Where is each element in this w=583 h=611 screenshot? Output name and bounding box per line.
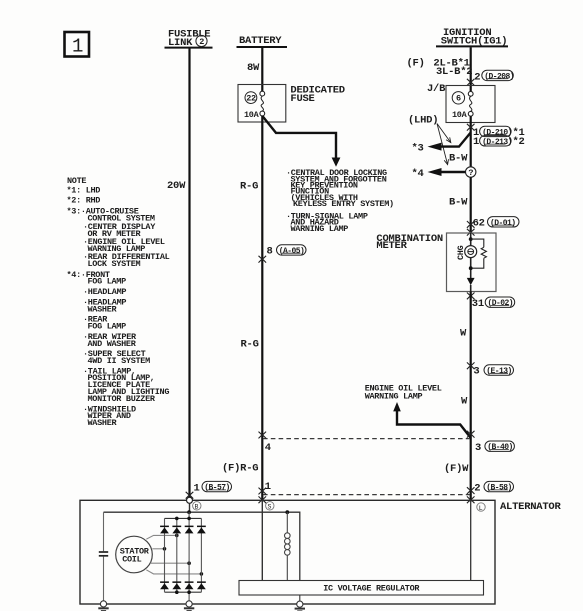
meter internal wire bottom: [470, 285, 472, 292]
dashed line row B-58: [263, 494, 470, 496]
engine oil level warning lamp note: [365, 383, 471, 438]
svg-text:S: S: [268, 504, 272, 511]
field coil branch: [285, 512, 291, 580]
central door locking note text: [286, 168, 394, 234]
labels (F)2L-B*1 3L-B*2: [407, 58, 473, 78]
wire fusible link to alternator: [188, 49, 190, 498]
svg-text:L: L: [479, 505, 483, 512]
dedicated fuse box: [238, 85, 286, 123]
connector D-02: [467, 293, 515, 310]
svg-text:(D-208): (D-208): [484, 72, 514, 81]
svg-text:FOG LAMP: FOG LAMP: [88, 322, 127, 332]
connector D-208: [467, 70, 514, 85]
connector D-01: [467, 217, 519, 236]
svg-text:8: 8: [267, 245, 273, 257]
svg-text:(F)W: (F)W: [444, 463, 469, 475]
svg-text:3: 3: [473, 366, 479, 378]
svg-text:1: 1: [194, 483, 200, 495]
fusible link label: [165, 29, 213, 49]
ground terminal regulator: [295, 601, 305, 611]
svg-text:(E-13): (E-13): [486, 367, 512, 376]
svg-text:22: 22: [246, 94, 256, 104]
alternator main bus wire: [104, 512, 300, 580]
svg-text:FOG LAMP: FOG LAMP: [88, 277, 127, 287]
svg-text:(LHD): (LHD): [408, 114, 438, 126]
terminal L letter: [477, 503, 485, 512]
svg-text:*1: LHD: *1: LHD: [67, 186, 101, 196]
svg-text:(A-05): (A-05): [279, 247, 305, 256]
connector A-05: [259, 245, 307, 263]
fuse 6 circled label: [452, 92, 464, 104]
wire S terminal to regulator: [261, 500, 263, 580]
connector B-58: [467, 481, 514, 503]
svg-text:1: 1: [72, 36, 83, 58]
svg-text:BATTERY: BATTERY: [239, 35, 282, 47]
svg-text:R-G: R-G: [240, 181, 258, 193]
connector label underlines: [208, 79, 514, 490]
svg-text:MONITOR BUZZER: MONITOR BUZZER: [88, 394, 156, 404]
NOTE block: [67, 176, 170, 428]
svg-text:*4: *4: [412, 168, 424, 180]
fuse 22 circled label: [245, 92, 257, 104]
dedicated fuse label: [290, 84, 344, 104]
connector B-40: [467, 431, 515, 454]
branch arrow *4: [412, 168, 466, 180]
svg-text:(F)R-G: (F)R-G: [222, 463, 258, 475]
branch arrow *3: [412, 133, 471, 155]
svg-text:WARNING LAMP: WARNING LAMP: [291, 224, 349, 234]
svg-text:1: 1: [265, 481, 271, 493]
meter internal wire top: [470, 233, 472, 246]
wire B terminal into bridge: [189, 503, 191, 512]
wire J/B to joint circle: [470, 116, 472, 167]
capacitor branch wire: [103, 512, 105, 601]
node top junction: [469, 237, 473, 241]
svg-text:(B-57): (B-57): [204, 484, 230, 493]
rectifier column wires: [165, 512, 202, 601]
charge warning lamp CHG: [456, 245, 477, 260]
node bottom junction: [469, 266, 473, 270]
wire ignition switch to J/B fuse: [470, 47, 472, 91]
svg-text:B-W: B-W: [449, 153, 468, 165]
fuse element dedicated fuse: [260, 91, 265, 116]
svg-text:*2: RHD: *2: RHD: [67, 195, 101, 205]
svg-text:(B-58): (B-58): [486, 484, 512, 493]
diodes bottom row: [160, 581, 169, 589]
dashed line row B-40: [263, 438, 470, 440]
svg-text:WASHER: WASHER: [88, 305, 118, 315]
svg-text:(D-213): (D-213): [482, 138, 512, 147]
svg-text:2: 2: [474, 483, 480, 495]
svg-text:6: 6: [456, 94, 461, 104]
wire meter to E-13: [470, 292, 472, 502]
svg-text:ALTERNATOR: ALTERNATOR: [500, 501, 561, 513]
svg-text:10A: 10A: [244, 110, 260, 120]
svg-text:IC VOLTAGE REGULATOR: IC VOLTAGE REGULATOR: [323, 583, 420, 593]
combination meter box: [447, 233, 497, 292]
svg-text:J/B: J/B: [427, 83, 446, 95]
svg-text:WARNING LAMP: WARNING LAMP: [365, 392, 423, 402]
svg-text:B: B: [195, 504, 199, 511]
svg-text:LOCK SYSTEM: LOCK SYSTEM: [88, 259, 141, 269]
joint connector circle: [466, 167, 476, 178]
svg-text:(D-02): (D-02): [488, 299, 514, 308]
svg-text:METER: METER: [376, 240, 407, 252]
svg-text:B-W: B-W: [449, 197, 468, 209]
battery label: [237, 35, 288, 47]
svg-text:3: 3: [475, 442, 481, 454]
label LHD with pointer arrows: [408, 114, 451, 164]
ground terminal capacitor: [98, 601, 108, 611]
svg-text:1: 1: [473, 136, 479, 148]
svg-text:CHG: CHG: [456, 245, 466, 260]
svg-text:(D-01): (D-01): [490, 219, 516, 228]
connector E-13: [467, 362, 514, 377]
meter internal wire below lamp: [470, 258, 472, 279]
svg-text:AND WASHER: AND WASHER: [88, 339, 137, 349]
svg-text:31: 31: [472, 298, 484, 310]
node field coil feed: [285, 510, 289, 514]
svg-text:WASHER: WASHER: [88, 418, 118, 428]
node taps: [175, 534, 179, 538]
junction block J/B box: [446, 86, 495, 123]
chevrons battery wire row 4: [259, 432, 267, 439]
svg-text:W: W: [460, 328, 467, 340]
svg-text:4: 4: [265, 442, 271, 454]
ground terminal rectifier: [184, 601, 194, 611]
svg-text:?: ?: [468, 168, 473, 178]
page number box 1: [65, 32, 90, 58]
svg-text:4WD II SYSTEM: 4WD II SYSTEM: [88, 356, 151, 366]
node bridge feed: [187, 510, 191, 514]
diodes top row: [160, 526, 169, 534]
regulator ground stub: [299, 595, 301, 601]
svg-text:*3: *3: [412, 142, 424, 154]
wire battery fuse down to alternator: [261, 116, 263, 502]
svg-text:W: W: [461, 396, 468, 408]
connector B-57: [186, 481, 232, 498]
svg-text:NOTE: NOTE: [67, 176, 86, 186]
terminal B letter: [193, 502, 201, 511]
node bus junctions: [175, 517, 179, 521]
direction triangle: [467, 278, 475, 285]
meter resistor branch: [471, 239, 487, 268]
alternator box: [80, 500, 495, 604]
svg-text:3L-B*2: 3L-B*2: [436, 66, 472, 78]
svg-text:R-G: R-G: [241, 339, 259, 351]
branch arrow to central door locking note: [263, 117, 341, 167]
rectifier top bus: [165, 517, 202, 519]
wire battery to dedicated fuse: [261, 48, 263, 91]
ignition switch label: [436, 27, 508, 47]
svg-text:10A: 10A: [452, 110, 468, 120]
terminal S letter: [266, 502, 274, 511]
fuse element J/B: [468, 91, 473, 116]
svg-text:2: 2: [199, 37, 204, 47]
svg-text:COIL: COIL: [122, 555, 141, 565]
svg-text:*2: *2: [513, 136, 525, 148]
wire joint to combination meter: [470, 177, 472, 233]
svg-text:·HEADLAMP: ·HEADLAMP: [83, 287, 126, 297]
svg-text:2: 2: [474, 71, 480, 83]
svg-text:(F): (F): [407, 58, 425, 70]
svg-text:20W: 20W: [167, 180, 186, 192]
stator tap wires: [146, 535, 201, 574]
terminal B bolt: [187, 497, 193, 503]
combination meter label: [376, 233, 443, 252]
rectifier bottom bus: [165, 591, 202, 593]
svg-text:8W: 8W: [247, 62, 260, 74]
IC voltage regulator box: [239, 581, 484, 596]
capacitor plates: [99, 552, 108, 556]
stator coil: [116, 536, 153, 573]
svg-text:KEYLESS ENTRY SYSTEM): KEYLESS ENTRY SYSTEM): [293, 199, 394, 209]
svg-text:(B-40): (B-40): [487, 443, 513, 452]
svg-text:FUSE: FUSE: [290, 93, 314, 105]
connector D-210 / D-213 rows: [467, 124, 525, 148]
wire L terminal to regulator: [470, 500, 472, 580]
